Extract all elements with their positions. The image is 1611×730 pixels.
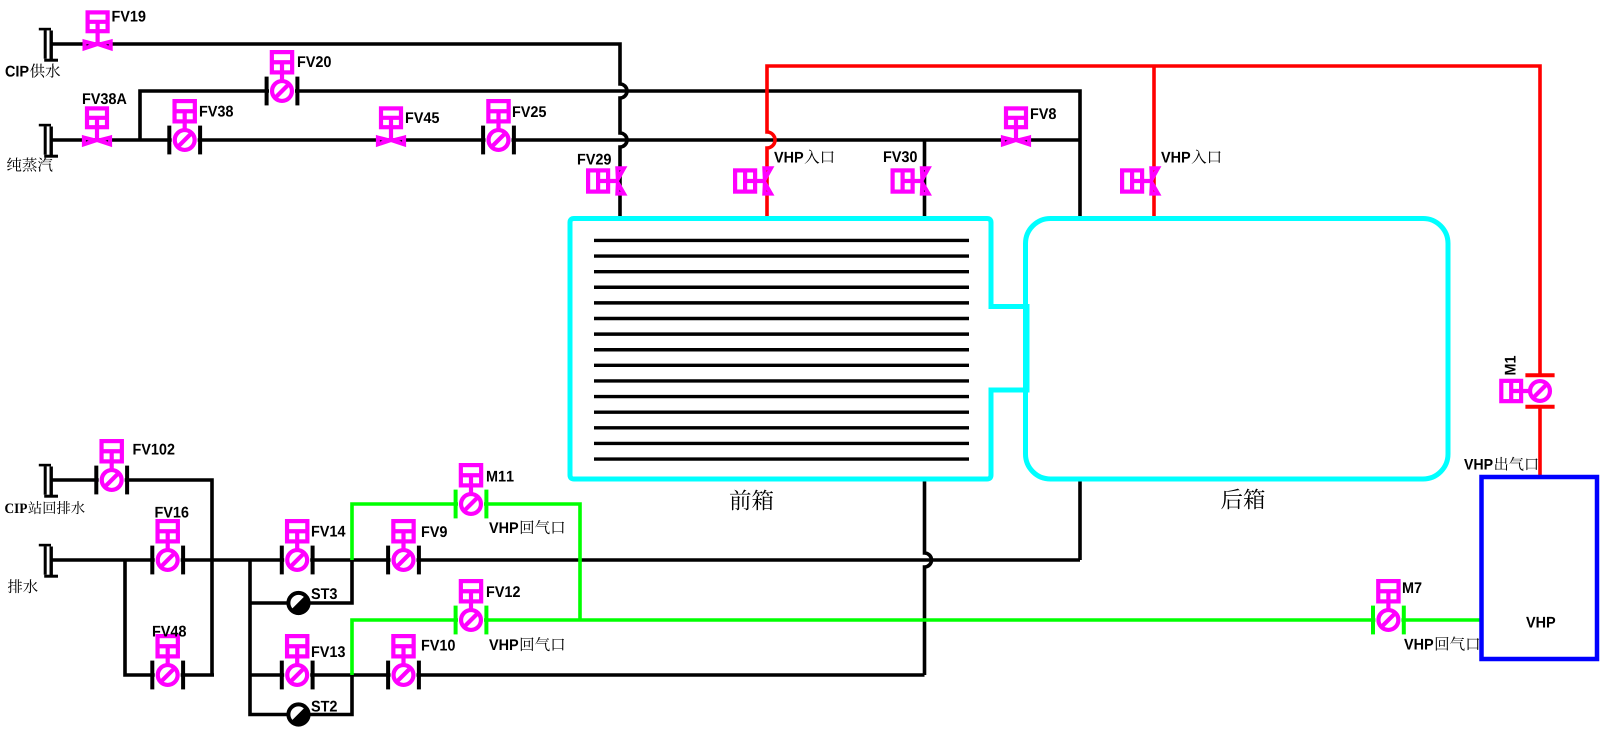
label VHP rukou rear (VHP inlet) (1161, 149, 1220, 163)
label FV38 (200, 106, 233, 117)
wire VHP return main line to VHP unit (green) (352, 620, 1482, 675)
label CIP gongshui (CIP water supply) (6, 64, 61, 78)
label VHP huiqikou at VHP unit (1404, 636, 1479, 650)
wire VHP return upper loop (green) (352, 504, 580, 620)
label FV13 (312, 646, 345, 657)
source terminator CIP water supply (39, 29, 58, 60)
valve FV102 (96, 441, 127, 494)
wire VHP outlet drop to VHP unit (red), M1 branch (1538, 407, 1542, 477)
label FV25 (513, 106, 546, 117)
label FV30 (884, 151, 917, 162)
label ST3 (311, 588, 337, 599)
label FV20 (298, 56, 331, 67)
label M7 (1403, 582, 1421, 593)
label qianxiang (front chamber) (730, 490, 773, 511)
front chamber box (qianxiang) with door passage (570, 219, 1027, 480)
label FV12 (487, 586, 520, 597)
valve FV16 (152, 521, 183, 574)
valve FV10 (388, 636, 419, 689)
wire upper header line (FV20 branch) with riser and drop into rear box (140, 91, 1080, 219)
wire CIP return line and vertical to drain and FV48 line (50, 480, 212, 675)
VHP generator box (1482, 477, 1598, 659)
valve FV38A (84, 108, 110, 144)
label FV45 (406, 112, 439, 123)
valve M7 (green bars) (1373, 581, 1404, 634)
label FV48 (153, 626, 186, 637)
rear chamber box (houxiang) (1026, 219, 1449, 480)
valve FV19 (85, 12, 111, 48)
wire front box bottom drop with hop over drain (925, 479, 932, 675)
wire VHP inlet drop to rear box (red) (1152, 66, 1156, 219)
valve FV14 (282, 521, 313, 574)
steam trap ST2 (288, 704, 308, 724)
label paishui (drain) (8, 579, 38, 593)
label FV102 (133, 444, 174, 455)
label VHP huiqikou upper (VHP return port) (489, 520, 564, 534)
valve M1 (red bars) (1501, 375, 1554, 406)
label FV29 (578, 154, 611, 165)
steam trap ST3 (288, 593, 308, 613)
label FV9 (422, 526, 447, 537)
source terminator drain (39, 545, 58, 576)
label FV10 (422, 640, 455, 651)
label FV14 (312, 526, 345, 537)
valve FV38 (169, 101, 200, 154)
label houxiang (rear chamber) (1221, 489, 1264, 510)
shelf stack inside front chamber (594, 240, 969, 459)
valve FV48 (152, 636, 183, 689)
label FV38A (83, 93, 127, 104)
wire branch vertical to traps and ST2 bypass (250, 560, 352, 715)
label M1 (rotated) (1505, 356, 1516, 375)
label M11 (487, 471, 514, 482)
wire FV48 bypass loop (125, 560, 214, 675)
wire FV30 branch drop to front box (923, 140, 927, 219)
label ST2 (311, 701, 336, 712)
valve FV45 (378, 108, 404, 144)
valve FV20 (267, 52, 298, 105)
valve M11 (green bars) (456, 465, 487, 518)
wire FV13-FV10 line to front box (250, 673, 925, 677)
label FV16 (155, 507, 188, 518)
label FV8 (1031, 108, 1056, 119)
label VHP huiqikou lower (VHP return port) (489, 637, 564, 651)
valve FV13 (282, 636, 313, 689)
label VHP chuqikou (VHP outlet) (1464, 457, 1538, 471)
valve FV25 (483, 101, 514, 154)
source terminator CIP station return (39, 465, 58, 496)
valve VHP inlet front (red line) (735, 168, 771, 193)
wire ST3 bypass loop (250, 560, 352, 603)
wire drain line (50, 558, 1080, 562)
wire pure steam line (50, 138, 1080, 142)
wire rear box bottom drop to drain (1078, 479, 1082, 560)
label VHP inside box (1526, 617, 1555, 628)
wire CIP water supply line and drop to front box with crossover hops, FV29 branch (50, 44, 627, 219)
valve FV9 (388, 521, 419, 574)
valve FV8 (1003, 108, 1029, 144)
valve VHP inlet rear (red line) (1122, 168, 1158, 193)
valve FV12 (green bars) (456, 581, 487, 634)
source terminator pure steam (39, 125, 58, 156)
wire VHP supply header (red) with inlet drop to front box (767, 66, 1540, 375)
label FV19 (112, 11, 145, 22)
label VHP rukou front (VHP inlet) (774, 149, 833, 163)
label chunzhengqi (pure steam) (7, 157, 52, 171)
valve FV30 (893, 168, 929, 193)
label CIP zhanhuipaishui (CIP station return) (5, 501, 85, 514)
valve FV29 (588, 168, 624, 193)
